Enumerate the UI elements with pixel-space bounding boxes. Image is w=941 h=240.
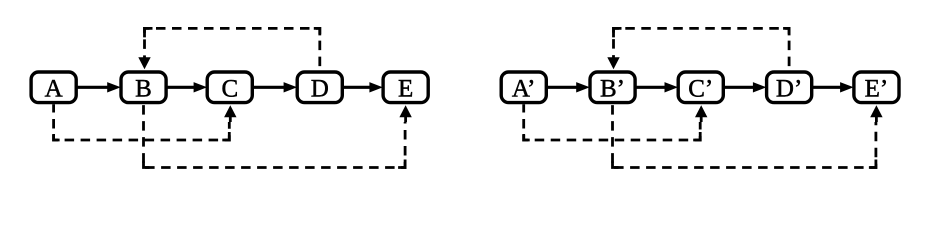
svg-text:B’: B’	[600, 76, 625, 103]
svg-text:A’: A’	[512, 76, 536, 103]
svg-text:D’: D’	[776, 76, 802, 103]
svg-text:A: A	[45, 76, 63, 103]
svg-text:C’: C’	[688, 76, 713, 103]
svg-text:D: D	[311, 76, 329, 103]
svg-text:E’: E’	[865, 76, 889, 103]
svg-text:B: B	[135, 76, 152, 103]
svg-text:C: C	[221, 76, 238, 103]
svg-text:E: E	[398, 76, 413, 103]
